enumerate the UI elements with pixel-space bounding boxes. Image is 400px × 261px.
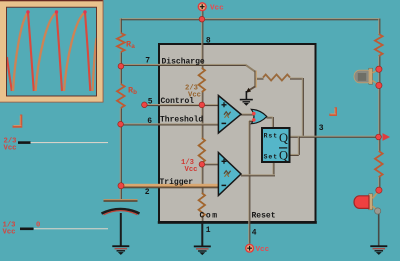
wire R1 to R2: [201, 92, 203, 138]
resistor RA: [117, 33, 125, 52]
wire Vcc top rail: [120, 18, 380, 20]
scope window frame: [0, 0, 104, 103]
junction node trigger: [118, 183, 124, 189]
wire R3 to Com pin: [201, 217, 203, 221]
svg-text:Vcc: Vcc: [185, 166, 198, 174]
wire OR gate output vertical to flip-flop: [272, 117, 274, 128]
junction dot LED D2 anode: [376, 187, 382, 193]
junction node control 2/3 Vcc: [199, 102, 205, 108]
LED D1 (off): [354, 68, 379, 85]
junction dot LED D1 cathode: [376, 82, 382, 88]
arrow output direction: [383, 133, 391, 141]
wire reset line vertical to pin 4: [248, 121, 250, 244]
wire base resistor to vertical drop: [290, 78, 303, 80]
svg-text:1: 1: [206, 226, 211, 235]
label 2/3 Vcc internal: [185, 85, 201, 100]
wire R2 to R3: [201, 163, 203, 193]
annotation 2/3 Vcc level: [4, 137, 109, 152]
svg-text:Q: Q: [279, 131, 288, 145]
wire transistor base to resistor: [256, 78, 264, 80]
junction node pin 6: [118, 121, 124, 127]
wire 1/3 Vcc node to comparator: [201, 163, 219, 165]
svg-text:Rst: Rst: [264, 132, 279, 139]
OR gate U4: [251, 109, 266, 123]
junction node 1/3 Vcc: [199, 162, 205, 168]
resistor R output top: [375, 34, 383, 56]
svg-text:Trigger: Trigger: [160, 178, 194, 187]
svg-text:3: 3: [319, 124, 324, 133]
wire base resistor down to output node: [302, 78, 304, 136]
svg-text:Q: Q: [279, 149, 288, 163]
junction node Vcc rail: [199, 16, 205, 22]
annotation 1/3 Vcc level: [3, 222, 109, 237]
svg-text:7: 7: [145, 56, 150, 65]
ground (pin 1 Com): [194, 246, 211, 256]
wire Vcc terminal to pin 8: [201, 11, 203, 44]
wire pin 2 trigger line (thick): [120, 184, 220, 189]
junction node pin 7: [118, 63, 124, 69]
svg-text:Vcc: Vcc: [256, 246, 270, 254]
resistor base drive: [263, 75, 290, 81]
IC 555 body U1: [158, 44, 317, 224]
wire left branch upper segment: [120, 19, 122, 33]
capacitor C1: [102, 199, 140, 215]
wire resistor to LED D2: [378, 177, 380, 190]
wire Q-bar output: [290, 154, 299, 156]
wire pin 5 control line: [144, 104, 219, 106]
svg-text:4: 4: [252, 229, 257, 238]
junction node pin 5 stub: [142, 102, 148, 108]
resistor RB: [117, 84, 125, 108]
wire comparator U3 output: [241, 174, 275, 176]
resistor R1 (divider top): [199, 68, 205, 92]
svg-text:8: 8: [206, 36, 211, 45]
wire LED D1 to output node: [378, 68, 380, 151]
ground (emitter of Q1): [240, 99, 253, 106]
wire to Set input of flip-flop: [272, 162, 274, 174]
op-amp U2 threshold comparator: [218, 96, 241, 134]
flip-flop U5 RS latch: [262, 128, 290, 163]
svg-text:Reset: Reset: [252, 211, 276, 220]
wire reset to OR gate input: [249, 120, 253, 122]
svg-text:Vcc: Vcc: [3, 229, 16, 237]
svg-text:Control: Control: [161, 97, 195, 106]
wire pin 8 to divider R1: [201, 43, 203, 68]
Vcc terminal top: [198, 3, 206, 11]
Vcc terminal bottom: [246, 244, 254, 252]
transistor Q1 discharge: [246, 65, 257, 99]
svg-text:Threshold: Threshold: [160, 115, 203, 124]
probe marker B (output): [329, 107, 337, 115]
svg-text:6: 6: [147, 117, 152, 126]
wire comparator U2 output to OR gate: [241, 113, 253, 115]
junction dot LED D1 anode: [376, 66, 382, 72]
wire Q output to pin 3 and rail: [290, 136, 379, 138]
label 1/3 Vcc internal: [181, 159, 197, 174]
wire between RA and RB: [120, 52, 122, 84]
wire Q-bar up to output node: [298, 137, 300, 155]
op-amp U3 trigger comparator: [218, 153, 241, 196]
wire pin 7 discharge line: [120, 64, 247, 66]
resistor R2 (divider middle): [199, 138, 205, 163]
junction dot LED D2 cathode (gray): [375, 208, 381, 214]
svg-text:5: 5: [148, 97, 153, 106]
svg-text:2: 2: [145, 188, 150, 197]
svg-text:Set: Set: [264, 154, 279, 161]
wire RB to capacitor: [120, 108, 122, 200]
wire resistor to LED D1: [378, 56, 380, 68]
svg-text:Vcc: Vcc: [210, 5, 224, 13]
ground (LED branch): [370, 245, 387, 255]
wire LED D2 to ground: [378, 211, 380, 246]
resistor R3 (divider bottom): [199, 193, 205, 217]
scope waveform trace: [7, 10, 97, 91]
wire right rail upper segment: [378, 19, 380, 34]
wire pin 1 Com to ground: [201, 222, 203, 246]
svg-text:Com: Com: [200, 211, 219, 220]
probe marker A (capacitor): [13, 115, 23, 127]
wire OR gate output horizontal: [267, 116, 273, 118]
wire capacitor to ground: [120, 213, 122, 246]
resistor R output bottom: [375, 151, 383, 177]
svg-text:Vcc: Vcc: [4, 144, 17, 152]
junction node pin 3 output: [376, 134, 382, 140]
ground (capacitor): [112, 245, 129, 255]
wire pin 6 threshold line: [120, 123, 219, 125]
LED D2 (lit): [354, 191, 379, 211]
svg-text:Discharge: Discharge: [162, 58, 205, 67]
